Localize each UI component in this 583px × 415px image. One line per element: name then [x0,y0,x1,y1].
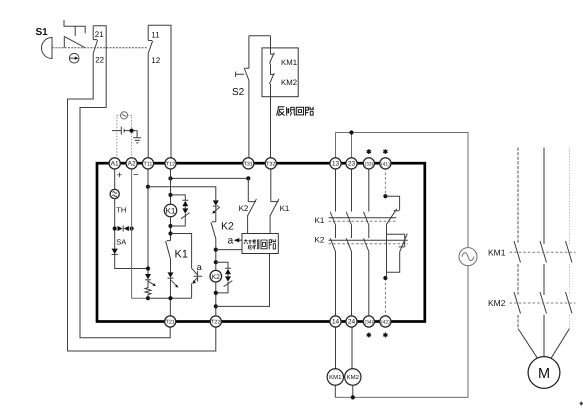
terminal 23 [346,158,357,169]
terminal A1 [109,158,120,169]
battery symbol [112,127,137,135]
wire K2 coil to T22 [215,282,217,317]
wire S2 to T31 [248,80,250,158]
svg-text:13: 13 [332,161,340,168]
internal rail [148,297,192,299]
terminal 24 [346,316,357,327]
phase L2 [543,148,545,329]
wire 22 to T22 [68,53,216,351]
svg-text:S1: S1 [36,27,49,38]
svg-text:21: 21 [95,30,104,39]
diode SA chain [112,249,118,255]
svg-text:KM2: KM2 [281,78,297,87]
wire 24 to KM2 coil [351,327,353,369]
pushbutton S2 (NO start) [244,36,249,81]
wire A1 column [114,199,116,249]
junction T31 [246,176,250,180]
svg-text:K2: K2 [212,274,221,281]
relay coil K2 [210,270,222,282]
wire source to coil return [335,266,468,398]
output path 13-14 [330,168,335,317]
svg-text:KM1: KM1 [488,247,506,257]
wire KM2 coil return [352,385,354,397]
wire KM1 coil return [334,385,336,397]
wire 23 riser [351,133,353,159]
ground [133,131,141,143]
wires to motor [518,329,570,359]
svg-text:K1: K1 [175,249,188,261]
junction TVS-A1 [113,226,117,230]
svg-text:K2: K2 [221,221,234,233]
junction K2 control tap [214,304,218,308]
output path 33-34 [364,168,369,317]
contact K2 monitor (T31) [247,178,256,216]
transistor emitter arrow [192,280,196,284]
terminal T21 [165,316,176,327]
terminal T11 [142,158,153,169]
svg-text:(34): (34) [364,319,373,325]
S1 latch symbol [64,20,85,36]
snubber K2 diode down + arrow [225,276,231,281]
S1 twist-release symbol [69,53,79,63]
terminal A2 [126,158,137,169]
PSU AC source symbol [121,112,128,119]
svg-text:A1: A1 [111,161,119,168]
svg-text:22: 22 [95,56,104,65]
svg-text:K1: K1 [280,204,290,213]
svg-text:T32: T32 [266,161,275,167]
junction T11 rail [146,296,150,300]
terminal T22 [210,316,221,327]
wire top bus to source [336,133,469,248]
transient suppressor A1-A2 [118,226,123,231]
S2 actuator [236,72,245,77]
safety relay module body [97,163,425,321]
svg-text:KM1: KM1 [281,58,297,67]
wire T31 to control box [247,217,249,234]
pushbutton S1 mushroom head [42,38,53,59]
wire T12 to T31 column [171,177,249,179]
wire control circuit return [216,254,270,307]
svg-text:a: a [228,236,234,247]
snubber K1 diode down + arrow [182,208,188,213]
terminal 42 [380,316,391,327]
terminal 34 [363,316,374,327]
contactor KM1 main contacts [514,241,572,263]
wire T32 to control box [269,217,271,234]
terminal T12 [165,158,176,169]
svg-text:(41): (41) [381,161,390,167]
terminal T31 [243,158,254,169]
asterisk below 34 [367,333,371,338]
wire T11 column [147,168,149,274]
wire K2 column [215,239,217,271]
AC line source G [459,248,477,266]
wire A2 column [132,168,148,298]
terminal 13 [330,158,341,169]
svg-text:11: 11 [151,31,160,40]
junction 23/top bus [349,130,353,134]
net label 反馈回路 (feedback circuit) [277,107,314,116]
svg-text:(42): (42) [381,319,390,325]
wire T11 to K2 branch [148,187,216,201]
junction K2 snubber bottom [214,291,218,295]
external PSU dotted wire A1 [117,115,121,158]
wire K1 to T21 [169,278,171,317]
svg-text:23: 23 [348,161,356,168]
motor M [528,357,560,389]
relay coil K1 [164,204,176,216]
svg-text:T12: T12 [166,161,175,167]
output path 23-24 [346,168,351,317]
asterisk above 33 [367,149,371,154]
svg-text:14: 14 [332,319,340,326]
S1 mechanical linkage (dashed) [52,47,148,49]
phase L3 [569,148,571,329]
junction K1 rail [168,296,172,300]
LED arrow T11 chain [149,282,155,286]
svg-text:K1: K1 [166,206,176,215]
svg-text:+: + [117,170,123,181]
snubber K2 diode up [225,269,231,274]
svg-text:S2: S2 [232,87,245,98]
feedback loop box [262,48,298,97]
contact K1 monitor (T32) [270,168,279,217]
contactor coil KM1 [327,369,343,385]
wire 13 riser [335,133,337,159]
svg-text:−: − [133,169,139,180]
snubber K1 diode up [182,201,188,206]
svg-text:K2: K2 [315,236,325,245]
junction 42 bottom [383,276,387,280]
junction K2 snubber top [214,248,218,252]
LED K2 branch [213,200,219,205]
phase L1 [517,148,519,329]
external PSU dotted wire A2 [128,115,132,158]
svg-text:(33): (33) [364,161,373,167]
svg-text:T11: T11 [144,161,153,167]
svg-text:SA: SA [116,237,126,246]
svg-text:T31: T31 [244,161,253,167]
svg-text:TH: TH [116,206,126,215]
svg-text:a: a [197,262,202,272]
diode K1 chain [168,272,174,277]
NC contact K2 41 path [387,224,408,278]
junction T12 [168,176,172,180]
terminal T32 [265,158,276,169]
LED arrow K1 chain [171,280,177,286]
wire K2 branch upper [215,206,217,222]
junction T11 k2branch [146,185,150,189]
junction coil return [351,395,355,399]
junction K1 snubber bottom [168,224,172,228]
svg-text:12: 12 [151,56,160,65]
wire S2 top link [249,35,271,37]
terminal 33 [363,158,374,169]
transistor branch [171,234,203,299]
svg-text:K1: K1 [315,216,325,225]
svg-text:M: M [538,366,550,382]
contact KM1 NC (feedback) [269,36,274,64]
junction T11 A1 chain [146,266,150,270]
wire 11 staple to T12 [148,25,171,159]
svg-text:24: 24 [348,319,356,326]
contact K1 NO [166,241,171,259]
wire 12 to T11 [147,53,149,159]
asterisk below 42 [383,333,387,338]
output path 41-42 dashed column [384,168,386,317]
terminal 41 [380,158,391,169]
wire K1 column mid [170,217,172,241]
asterisk above 41 [383,149,387,154]
wire K1 column lower [170,259,172,273]
wire A1 chain to T11 column [115,255,148,269]
junction 41 top [383,194,387,198]
svg-text:KM2: KM2 [488,298,506,308]
wire 21 staple top [80,26,170,338]
svg-text:A2: A2 [128,161,136,168]
contactor KM2 main contacts [514,292,572,314]
snubber K1 branch [171,195,189,226]
junction K1 transistor branch top [168,231,172,235]
svg-text:T22: T22 [211,320,220,326]
wire feedback to T32 [270,84,272,159]
contactor coil KM2 [345,369,361,385]
S1 wedge (direct opening action) [64,36,85,47]
junction battery-A2 [130,129,134,133]
control circuit box 控制回路 [242,234,278,254]
svg-text:T21: T21 [166,320,175,326]
terminal 14 [330,316,341,327]
svg-text:KM2: KM2 [347,374,360,381]
NC contact K1 41 path [385,196,399,224]
varistor T11 chain [145,280,151,298]
svg-text:KM1: KM1 [329,374,342,381]
svg-text:K2: K2 [239,204,249,213]
wire T12/K1 column upper [170,168,172,205]
contact S1 11-12 (NC channel 2) [148,25,152,53]
diode T11 chain [145,274,151,279]
page corner mark [580,401,583,405]
contact K2 NO [211,222,216,239]
snubber K2 branch [216,262,231,293]
junction K1 snubber top [168,193,172,197]
contact KM2 NC (feedback) [269,64,274,85]
internal PSU symbol [114,168,116,190]
wire 14 to KM1 coil [335,326,337,369]
contact S1 21-22 (NC channel 1) [93,26,97,54]
junction TVS-A2 [130,226,134,230]
